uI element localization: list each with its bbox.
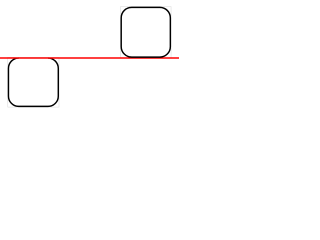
wire (red horizontal line): [0, 57, 179, 59]
node box A bounding outline (faint): [121, 7, 172, 58]
node box B (bottom-left rounded square, top edge under wire): [8, 58, 58, 106]
node box B bounding outline (faint): [8, 57, 59, 107]
node box A (top-right rounded square): [121, 7, 170, 57]
